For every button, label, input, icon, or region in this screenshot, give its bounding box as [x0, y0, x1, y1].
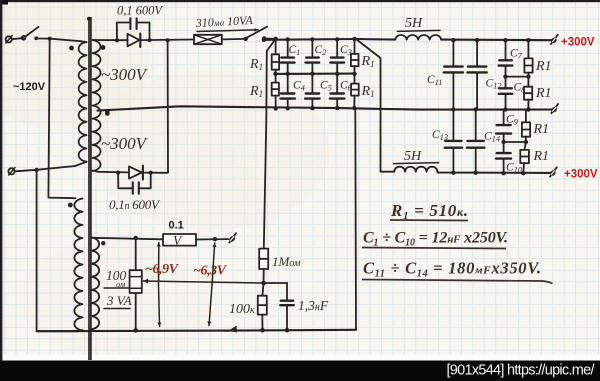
primary winding (lower)	[74, 199, 82, 331]
capacitor nt bottom row	[311, 74, 313, 93]
svg-text:C1 ÷ C10 = 12нF х250V.: C1 ÷ C10 = 12нF х250V.	[363, 230, 508, 249]
cap-bank middle bus	[276, 73, 355, 75]
R1 left column	[275, 39, 277, 54]
transformer core	[88, 17, 90, 360]
wire: diagonal feed to lower choke	[356, 39, 394, 172]
fuse F1	[194, 35, 222, 44]
filament top wire	[92, 238, 163, 240]
svg-text:~300V: ~300V	[101, 134, 149, 153]
DC top bus	[264, 38, 356, 41]
filament secondary winding	[92, 238, 99, 330]
phasing dot secondary lower	[105, 111, 110, 116]
+300V terminal (bottom)	[550, 167, 557, 176]
wire: T2 to primary bottom end	[15, 166, 75, 171]
capacitor 0,1 600V (snubber across D1)	[117, 23, 130, 41]
wire: D1 cathode to fuse	[140, 39, 194, 42]
svg-text:R1: R1	[535, 86, 552, 101]
node snubber2 right	[149, 171, 153, 175]
capacitor 0,1n 600V (snubber across D2)	[118, 173, 132, 189]
capacitor nt top row	[287, 40, 289, 57]
capacitor nt bottom row	[336, 74, 338, 93]
phasing dot primary lower	[68, 203, 73, 208]
resistor 100k	[262, 283, 263, 296]
capacitor C13	[452, 110, 454, 140]
6.3V output terminal	[229, 233, 236, 242]
resistor R1 (C8 row)	[527, 77, 529, 87]
switch S2	[222, 38, 246, 41]
resistor R1 (C7 row)	[527, 40, 529, 58]
wire: bleeder feed diagonal down	[264, 39, 276, 249]
node: bottom-diode tie-in	[166, 38, 170, 42]
svg-text:~120V: ~120V	[13, 81, 46, 93]
capacitor C9	[503, 110, 505, 124]
watermark bar	[0, 361, 600, 381]
switch S1	[12, 38, 24, 39]
phasing dot filament winding	[101, 241, 105, 245]
resistor R1 (C9 row)	[525, 110, 527, 122]
resistor 1Mom	[259, 249, 268, 269]
scan edge left	[0, 0, 2, 361]
capacitor C8	[505, 77, 507, 88]
measure arrow ~6,3V	[212, 243, 215, 285]
bus junction dots	[286, 37, 290, 41]
HV secondary winding ~300V + ~300V	[93, 40, 101, 171]
wire: L1 to +300V terminal	[441, 39, 553, 42]
svg-text:+300V: +300V	[561, 37, 595, 49]
junction wire C9/C10	[504, 141, 526, 143]
capacitor C14	[475, 110, 477, 140]
wire: V box to terminal	[196, 238, 228, 240]
svg-text:[901x544] https://upic.me/: [901x544] https://upic.me/	[447, 363, 596, 379]
wire: L2 to +300V terminal (bottom)	[437, 172, 552, 173]
terminal flag on bottom rail	[229, 326, 238, 333]
node snubber2 left	[116, 171, 120, 175]
capacitor nt top row	[311, 40, 313, 57]
svg-text:~6,9V: ~6,9V	[145, 262, 180, 277]
capacitor nt top row	[336, 40, 338, 57]
svg-text:+300V: +300V	[564, 169, 598, 181]
wire: neutral down to bottom rail	[37, 170, 78, 332]
svg-text:1,3нF: 1,3нF	[298, 298, 329, 313]
primary winding (upper, ~120V)	[79, 42, 87, 162]
wire: hot feed down to lower primary top	[48, 39, 75, 199]
bottom rail dots	[451, 171, 455, 175]
input terminal T1 (top)	[6, 36, 12, 42]
wiper arrow wire to divider junction	[143, 281, 263, 283]
svg-text:R1 = 510к.: R1 = 510к.	[390, 201, 468, 222]
choke L1 5H	[395, 35, 441, 40]
capacitor C11	[452, 40, 454, 66]
0V terminal (middle)	[551, 104, 558, 113]
node: T2 branch junction	[35, 168, 39, 172]
wire: switch to primary top	[36, 39, 80, 42]
node: junction at top-left	[48, 37, 52, 41]
diode D2	[129, 166, 142, 178]
capacitor C10	[503, 142, 505, 152]
capacitor nt bottom row	[287, 74, 289, 93]
svg-text:C11 ÷ C14 = 180мFх350V.: C11 ÷ C14 = 180мFх350V.	[363, 259, 541, 280]
svg-text:5H: 5H	[405, 16, 423, 31]
R1 right column	[354, 39, 356, 54]
choke L2 5H	[394, 167, 437, 172]
bottom rail (filament/neutral)	[37, 330, 356, 331]
svg-text:~6,3V: ~6,3V	[193, 264, 228, 279]
center-tap rail (0V)	[98, 106, 556, 110]
diode D1	[128, 34, 140, 47]
top rail dots	[451, 38, 455, 42]
wire: D2 cathode up to top branch	[143, 40, 168, 172]
phasing dot secondary upper	[101, 45, 106, 50]
capacitor C12	[476, 40, 478, 66]
wire: secondary top to diode D1	[93, 39, 128, 41]
input terminal T2 (bottom)	[8, 168, 14, 174]
svg-text:0,1n 600V: 0,1n 600V	[109, 197, 161, 212]
phasing dot primary upper	[69, 46, 74, 51]
svg-text:R1: R1	[533, 149, 550, 164]
svg-text:~300V: ~300V	[101, 65, 149, 84]
center rail dots right	[451, 107, 455, 111]
label underline arrow	[197, 30, 258, 32]
wire: top bus to choke L1	[356, 38, 395, 41]
paper tint (decorative)	[0, 0, 150, 130]
voltmeter box V	[163, 234, 196, 246]
node rectifier output	[273, 37, 278, 42]
svg-text:5H: 5H	[404, 149, 422, 164]
scan edge top	[0, 0, 600, 2]
svg-text:3 VA: 3 VA	[106, 293, 132, 308]
node at snubber right	[147, 38, 151, 42]
measure arrow ~6.9V	[158, 243, 160, 286]
svg-text:0.1: 0.1	[169, 220, 184, 232]
pot column wire	[135, 238, 137, 270]
wire: bottom rail up to 0V rail	[354, 108, 357, 330]
resistor R1 (C10 row)	[525, 142, 526, 150]
junction wire C7/C8	[506, 76, 529, 78]
wire: secondary bottom to diode D2	[93, 171, 130, 173]
node: core top mark	[87, 17, 91, 21]
svg-text:R1: R1	[533, 122, 550, 137]
svg-text:0,1 600V: 0,1 600V	[117, 4, 163, 18]
svg-text:100к: 100к	[229, 302, 255, 317]
svg-text:R1: R1	[535, 59, 552, 74]
capacitor 1,3uF	[264, 282, 287, 284]
rheostat 100om 3VA	[130, 270, 142, 293]
capacitor C7	[505, 40, 507, 59]
+300V terminal (top)	[551, 35, 558, 44]
node divider junction	[261, 281, 266, 286]
node at snubber left	[115, 38, 119, 42]
